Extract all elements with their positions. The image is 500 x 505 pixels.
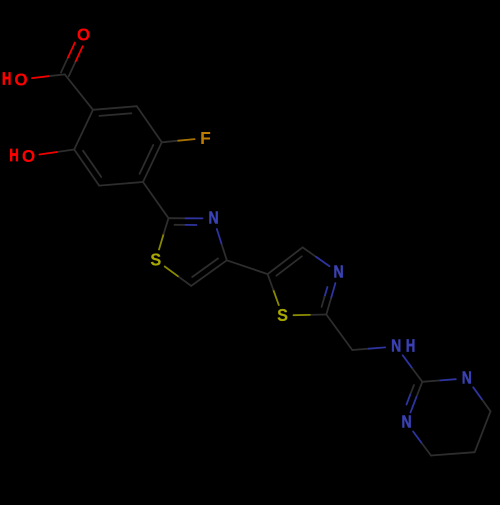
- svg-text:N: N: [208, 209, 218, 228]
- svg-text:N: N: [333, 263, 343, 282]
- bond pyrimidine N3-C2: [422, 379, 456, 382]
- bond C-F bond: [162, 139, 195, 142]
- bond phenol C-OH: [39, 150, 74, 155]
- bond aryl-thiazole bond: [143, 182, 169, 218]
- atom label thiazole-2 N3: [333, 263, 343, 282]
- bond CH2-NH: [352, 347, 385, 350]
- svg-text:H: H: [406, 337, 415, 356]
- atom label phenol OH: [9, 146, 35, 166]
- bond pyrimidine C6-C5: [431, 452, 475, 455]
- bond amidine C2=N1 double: [407, 382, 423, 413]
- bond bithiazole bond: [227, 260, 268, 274]
- bond carboxyl C to ring: [65, 74, 93, 109]
- bond thiazole-1 C2=N3: [169, 218, 203, 225]
- svg-text:H: H: [9, 146, 18, 165]
- bond benzene C4a=C3a top edge: [93, 106, 137, 116]
- bond benzene C2a=C1a right edge: [140, 142, 162, 182]
- bond thiazole-2 C2-S1: [294, 314, 327, 317]
- atom label thiazole-1 S1: [150, 250, 161, 270]
- bond thiazole-2 C5=C4: [268, 247, 303, 275]
- svg-text:N: N: [391, 337, 401, 356]
- svg-text:F: F: [200, 128, 211, 148]
- svg-text:O: O: [22, 146, 35, 166]
- bond NH to amidine C: [403, 355, 423, 382]
- bond thiazole-2 S1-C5: [268, 274, 279, 305]
- svg-text:H: H: [2, 70, 11, 89]
- bond carboxyl C=O double: [61, 43, 83, 77]
- bond thiazole-2 C4-N3: [303, 247, 330, 266]
- atom label carboxyl OH: [2, 69, 28, 89]
- bond benzene bottom edge: [99, 182, 143, 186]
- bond thiazole-1 C4=C5: [191, 258, 227, 286]
- svg-text:N: N: [462, 369, 472, 388]
- bond pyrimidine C4-N3: [473, 387, 490, 411]
- bond thiazole-2 N3=C2: [322, 283, 336, 314]
- atom label thiazole-2 S1: [277, 306, 288, 326]
- svg-text:N: N: [401, 413, 411, 432]
- bond thiazole-1 S1-C2: [159, 218, 169, 249]
- bond benzene upper-left edge: [74, 110, 93, 150]
- atom label thiazole-1 N3: [208, 209, 218, 228]
- bond benzene C6a=C5a left edge: [74, 150, 101, 186]
- bond thiazole-1 C5-S1: [165, 267, 192, 286]
- svg-text:O: O: [14, 69, 27, 89]
- bond thiazole-1 N3-C4: [217, 229, 227, 260]
- svg-text:O: O: [77, 24, 90, 44]
- bond carboxyl C-OH: [32, 74, 65, 78]
- bond pyrimidine N1-C6: [413, 432, 431, 456]
- atom label carbonyl O: [77, 24, 90, 44]
- atom label fluorine F: [200, 128, 211, 148]
- atom label pyrimidine N3: [462, 369, 472, 388]
- bond thiazole-2 to CH2: [326, 315, 352, 351]
- atom label amine NH: [391, 337, 415, 356]
- svg-text:S: S: [150, 250, 161, 270]
- bond benzene upper-right edge: [137, 106, 162, 142]
- atom label pyrimidine N1: [401, 413, 411, 432]
- svg-text:S: S: [277, 306, 288, 326]
- bond pyrimidine C5-C4: [475, 411, 491, 452]
